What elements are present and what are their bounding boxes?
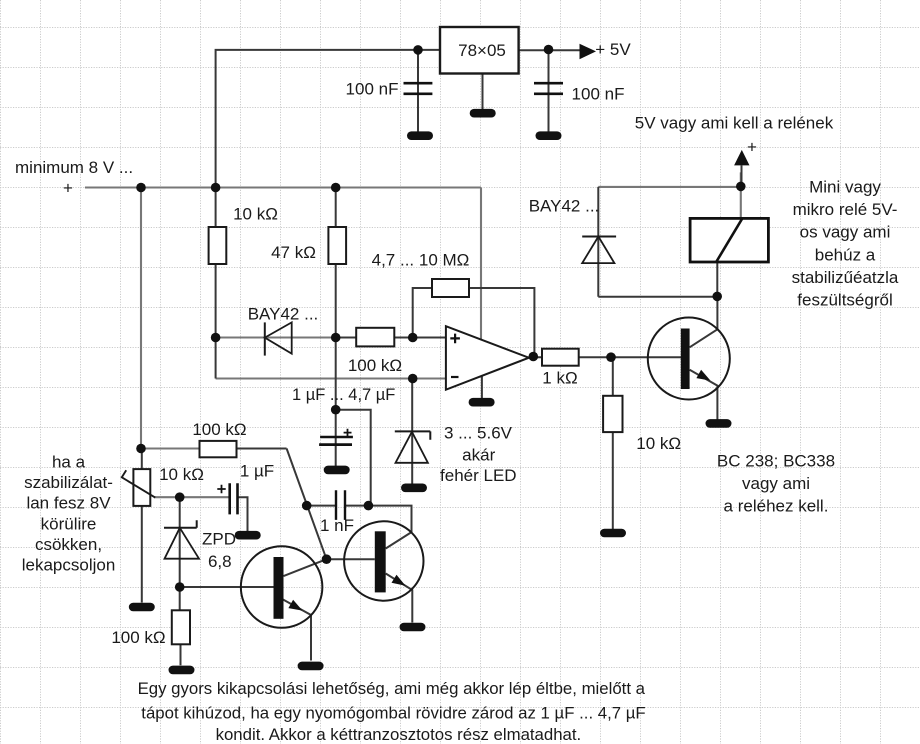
svg-text:+: +	[747, 138, 757, 157]
svg-text:kondit. Akkor a kéttranzosztot: kondit. Akkor a kéttranzosztotos rész el…	[216, 725, 582, 744]
svg-text:minimum 8 V ...: minimum 8 V ...	[15, 158, 133, 177]
svg-text:100 kΩ: 100 kΩ	[111, 628, 165, 647]
svg-text:10 kΩ: 10 kΩ	[636, 434, 681, 453]
svg-text:BAY42 ...: BAY42 ...	[248, 305, 319, 324]
svg-text:tápot kihúzod, ha egy nyomógom: tápot kihúzod, ha egy nyomógombal rövidr…	[141, 704, 645, 723]
svg-text:+: +	[63, 179, 73, 198]
svg-text:3 ... 5.6V: 3 ... 5.6V	[444, 423, 513, 442]
svg-text:a reléhez kell.: a reléhez kell.	[724, 497, 829, 516]
svg-text:10 kΩ: 10 kΩ	[159, 465, 204, 484]
svg-text:100 kΩ: 100 kΩ	[348, 356, 402, 375]
svg-text:lekapcsoljon: lekapcsoljon	[22, 556, 116, 575]
svg-text:47 kΩ: 47 kΩ	[271, 243, 316, 262]
svg-text:1 kΩ: 1 kΩ	[542, 368, 577, 387]
svg-text:szabilizálat-: szabilizálat-	[24, 473, 113, 492]
svg-text:behúz a: behúz a	[815, 245, 876, 264]
svg-text:körülire: körülire	[41, 514, 97, 533]
svg-text:100 kΩ: 100 kΩ	[192, 420, 246, 439]
svg-text:akár: akár	[462, 446, 495, 465]
svg-text:6,8: 6,8	[208, 552, 232, 571]
svg-text:1 µF: 1 µF	[240, 462, 274, 481]
svg-text:1 µF ... 4,7 µF: 1 µF ... 4,7 µF	[292, 386, 395, 404]
svg-text:mikro relé 5V-: mikro relé 5V-	[793, 200, 898, 219]
svg-text:os vagy ami: os vagy ami	[800, 223, 891, 242]
svg-text:78×05: 78×05	[458, 41, 506, 60]
svg-text:10 kΩ: 10 kΩ	[233, 205, 278, 224]
svg-text:BC 238; BC338: BC 238; BC338	[717, 452, 835, 471]
svg-text:fehér LED: fehér LED	[440, 466, 517, 485]
svg-text:vagy ami: vagy ami	[742, 474, 810, 493]
svg-text:BAY42 ...: BAY42 ...	[529, 197, 600, 216]
svg-text:Mini vagy: Mini vagy	[809, 178, 881, 197]
svg-text:stabilizűéatzla: stabilizűéatzla	[792, 268, 899, 287]
svg-text:100 nF: 100 nF	[572, 85, 625, 104]
svg-text:feszültségről: feszültségről	[797, 291, 892, 310]
svg-text:1 nF: 1 nF	[320, 516, 354, 535]
svg-text:lan fesz 8V: lan fesz 8V	[26, 494, 111, 513]
svg-text:4,7 ... 10 MΩ: 4,7 ... 10 MΩ	[372, 251, 470, 270]
svg-text:ha a: ha a	[52, 453, 86, 472]
svg-text:5V vagy ami kell a relének: 5V vagy ami kell a relének	[635, 114, 834, 133]
svg-text:csökken,: csökken,	[35, 535, 102, 554]
svg-text:ZPD: ZPD	[202, 530, 236, 549]
svg-text:+ 5V: + 5V	[595, 40, 631, 59]
svg-text:100 nF: 100 nF	[346, 80, 399, 99]
svg-text:Egy gyors kikapcsolási lehetős: Egy gyors kikapcsolási lehetőség, ami mé…	[138, 679, 646, 698]
